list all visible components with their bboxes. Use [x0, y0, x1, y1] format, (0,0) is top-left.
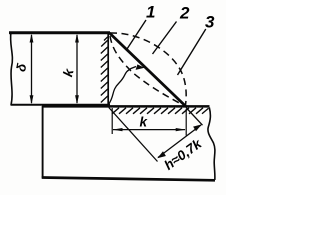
svg-text:2: 2	[179, 4, 190, 23]
svg-text:k: k	[60, 66, 77, 79]
svg-text:3: 3	[205, 13, 215, 32]
svg-text:δ: δ	[13, 62, 29, 73]
svg-text:h≈0,7k: h≈0,7k	[161, 135, 205, 173]
svg-text:1: 1	[146, 3, 155, 22]
svg-text:k: k	[140, 115, 149, 130]
